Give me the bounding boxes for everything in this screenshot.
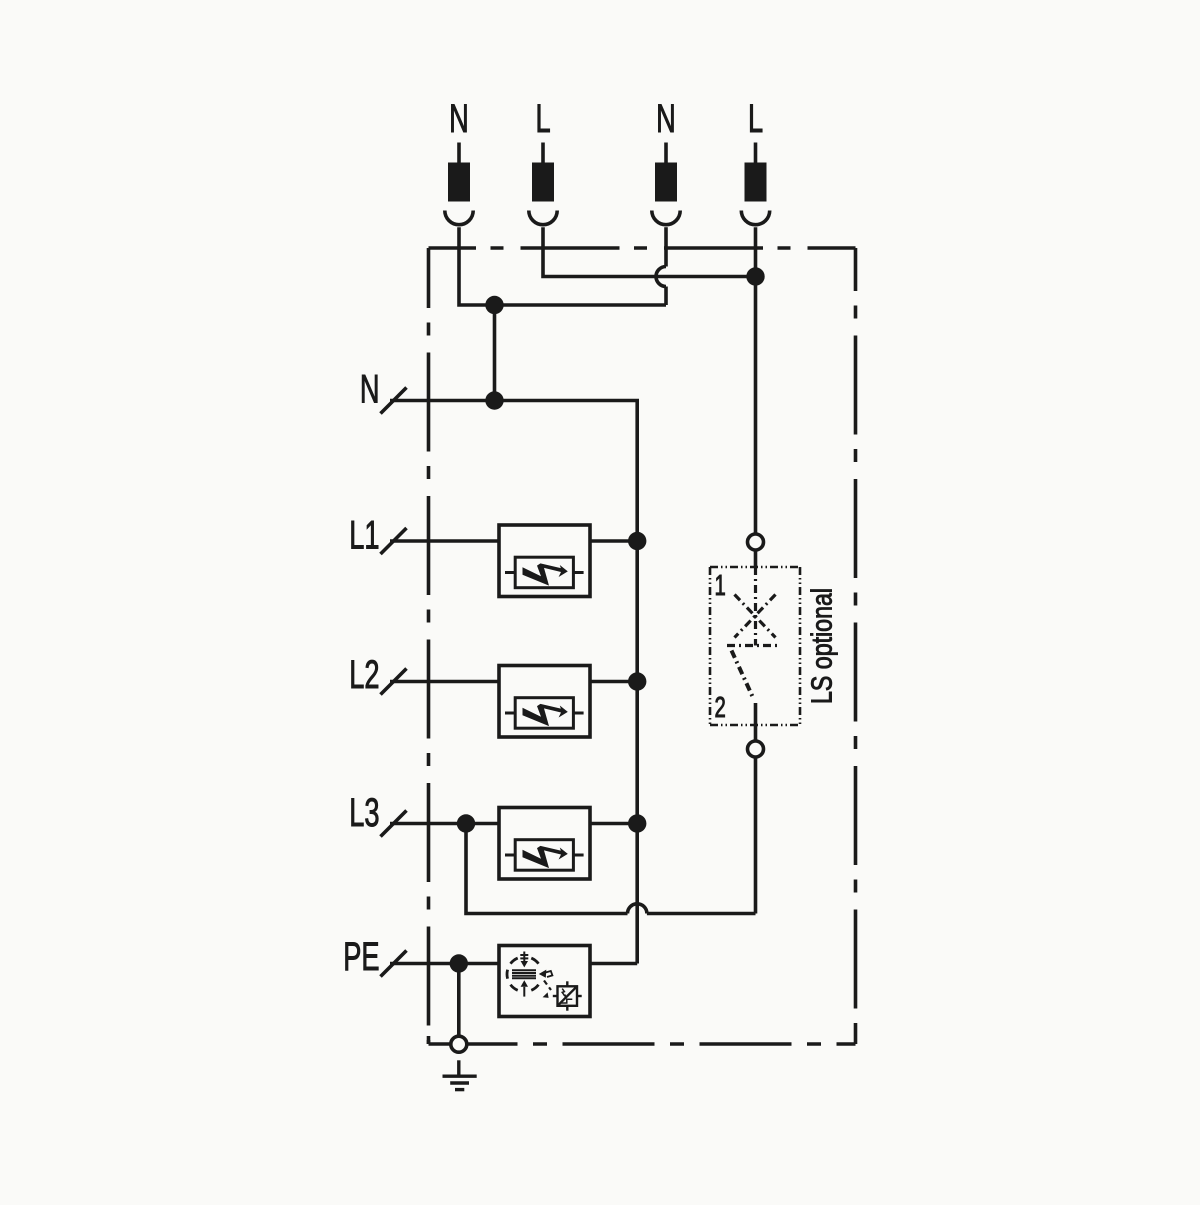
slash on PE conductor — [381, 951, 407, 977]
svg-text:L: L — [535, 97, 550, 141]
node: junction on N input wire — [485, 391, 503, 409]
wire: terminal N(1) down into enclosure — [459, 227, 666, 305]
wire: N bridge down to N bus — [493, 305, 497, 401]
slash on L1 conductor — [381, 528, 407, 554]
svg-text:2: 2 — [715, 692, 726, 724]
terminal X4 (L) — [741, 97, 769, 225]
node: junction on L3 input — [457, 814, 475, 832]
total spark gap U1 (N-PE) box — [390, 946, 637, 1017]
node: junction on PE input — [450, 954, 468, 972]
svg-text:L3: L3 — [349, 791, 379, 835]
LS switch: blade — [732, 651, 753, 697]
svg-text:1: 1 — [715, 570, 726, 602]
terminal X2 (L) — [529, 97, 557, 225]
spark gap: top arrow — [520, 952, 528, 968]
surge arrester F1 (L1-N) (spark-gap SPD) — [390, 525, 646, 597]
svg-text:L1: L1 — [349, 513, 379, 557]
wire: terminal N(3) down, with hop over L link — [664, 227, 668, 266]
device enclosure dashed box, right edge — [854, 248, 858, 1044]
svg-text:LS optional: LS optional — [805, 588, 838, 704]
hop arc on N(3) wire — [656, 267, 666, 287]
LS switch dash-dot box — [710, 567, 800, 725]
svg-text:L2: L2 — [349, 653, 379, 697]
terminal X1 (N) — [445, 97, 473, 225]
LS switch: X breaker symbol — [727, 567, 781, 697]
wire: N input to bus corner — [390, 401, 637, 964]
surge arrester F2 (L2-N) (spark-gap SPD) — [390, 666, 646, 738]
slash on L2 conductor — [381, 669, 407, 695]
ground symbol — [443, 1060, 477, 1089]
earth terminal open circle — [451, 1036, 467, 1052]
spark gap electrodes (hatched block) — [512, 970, 536, 978]
impulse arrow entering spark gap — [539, 970, 553, 978]
wire: PE down to earth terminal — [457, 964, 461, 1037]
hop arc over N bus — [628, 904, 647, 914]
svg-text:N: N — [656, 97, 676, 141]
LS switch: upper open contact circle — [748, 534, 764, 550]
node: junction L(2)/L(4) — [746, 267, 764, 285]
svg-text:N: N — [449, 97, 469, 141]
device enclosure dashed box, bottom edge — [429, 1042, 856, 1046]
slash on N conductor — [381, 388, 407, 414]
svg-text:L: L — [748, 97, 763, 141]
wire: L3 tap down and across to LS switch, with hop over N bus — [466, 824, 628, 914]
dashed trigger line to varistor — [544, 981, 551, 991]
wire: terminal L(2) down and across to L(4) — [543, 227, 756, 276]
device enclosure dashed box, left edge — [427, 248, 431, 1044]
device enclosure dashed box, top edge — [429, 246, 856, 250]
svg-text:PE: PE — [343, 935, 379, 979]
varistor mini-symbol in PE box — [553, 981, 582, 1010]
spark gap symbol: dashed circle (5 arcs) — [507, 958, 538, 990]
wire: terminal L(4) down to LS switch — [754, 227, 758, 534]
spark gap: bottom arrow — [521, 980, 528, 996]
LS switch: lower open contact circle — [748, 741, 764, 757]
terminal X3 (N) — [652, 97, 680, 225]
surge arrester F3 (L3-N) (spark-gap SPD) — [390, 808, 646, 880]
slash on L3 conductor — [381, 811, 407, 837]
svg-text:N: N — [360, 367, 380, 411]
node: junction on N(1)-N(3) link — [485, 296, 503, 314]
